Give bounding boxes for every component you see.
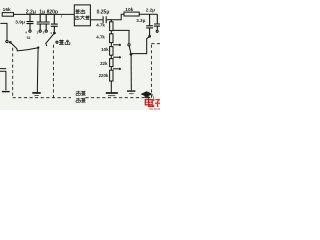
svg-text:10k: 10k: [125, 7, 133, 13]
svg-text:2.2μ: 2.2μ: [146, 8, 155, 13]
svg-text:3.3μ: 3.3μ: [136, 18, 145, 23]
svg-text:16k: 16k: [3, 7, 11, 13]
svg-text:22k: 22k: [100, 61, 108, 66]
svg-text:220k: 220k: [99, 73, 109, 78]
svg-text:2.2μ: 2.2μ: [26, 10, 36, 16]
svg-text:1μ: 1μ: [39, 10, 45, 16]
svg-text:0.25μ: 0.25μ: [97, 10, 110, 16]
svg-text:10k: 10k: [101, 47, 109, 52]
svg-text:820p: 820p: [47, 10, 58, 16]
svg-text:3.9μ: 3.9μ: [15, 20, 25, 26]
svg-text:4.7k: 4.7k: [96, 34, 105, 39]
svg-text:4.7k: 4.7k: [96, 22, 105, 27]
svg-text:S1: S1: [27, 36, 31, 40]
